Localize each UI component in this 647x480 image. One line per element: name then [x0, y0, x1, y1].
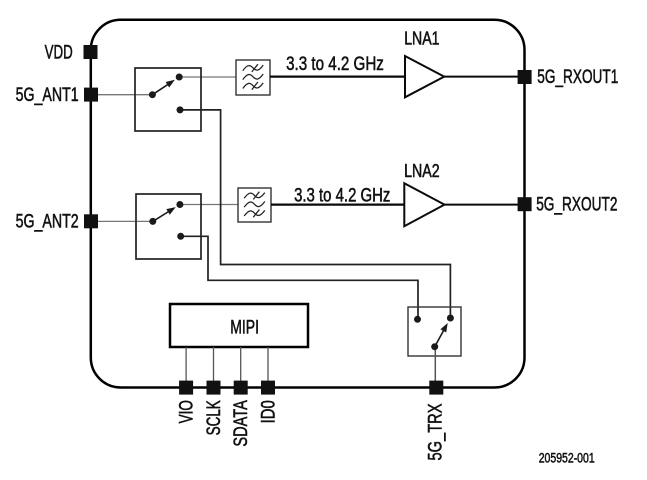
switch SW1 throw2 dot — [177, 106, 184, 113]
pin SCLK pad — [207, 381, 221, 395]
switch SW2 box — [136, 194, 201, 259]
switch SW3 throw1 dot — [414, 316, 421, 323]
switch SW3 arrow — [435, 323, 448, 347]
svg-text:SDATA: SDATA — [231, 400, 252, 447]
filter FL2 box — [238, 188, 271, 222]
wire SW1 throw1 to filter FL1 — [179, 76, 236, 78]
filter FL1 wave1 slash — [252, 64, 258, 72]
op-amp LNA1 triangle — [405, 56, 444, 97]
pin SDATA pad — [234, 381, 248, 395]
filter FL1 wave3 slash — [252, 82, 258, 90]
MIPI block box — [170, 304, 308, 347]
switch SW3 throw2 dot — [447, 315, 454, 322]
svg-text:ID0: ID0 — [258, 400, 279, 423]
wire 5G_ANT2 pin to switch SW2 common — [97, 220, 153, 222]
pin VIO pad — [179, 381, 193, 395]
filter FL2 wave1 — [244, 193, 265, 199]
filter FL1 box — [236, 60, 270, 95]
pin 5G_ANT2 pad — [84, 214, 98, 228]
wire 5G_ANT1 pin to switch SW1 common — [97, 94, 152, 96]
svg-text:LNA2: LNA2 — [404, 161, 440, 181]
svg-text:5G_TRX: 5G_TRX — [425, 403, 446, 460]
svg-text:MIPI: MIPI — [230, 317, 259, 338]
filter FL1 wave3 — [243, 83, 263, 89]
switch SW2 common dot — [149, 218, 156, 225]
wire MIPI to VIO pin — [185, 347, 187, 382]
wire LNA1 output to 5G_RXOUT1 pin — [444, 76, 518, 78]
svg-text:5G_ANT1: 5G_ANT1 — [16, 85, 79, 106]
switch SW1 common dot — [149, 91, 156, 98]
wire SW1 throw2 route to SW3 throw2 — [180, 110, 450, 318]
svg-text:SCLK: SCLK — [204, 400, 225, 435]
svg-text:VDD: VDD — [45, 43, 73, 64]
wire MIPI to SCLK pin — [213, 347, 215, 382]
svg-text:3.3 to 4.2 GHz: 3.3 to 4.2 GHz — [286, 54, 384, 75]
wire MIPI to SDATA pin — [240, 347, 242, 382]
wire SW2 throw1 to filter FL2 — [180, 204, 238, 206]
switch SW3 box — [408, 307, 461, 356]
filter FL2 wave2 — [244, 202, 265, 208]
switch SW2 arrow — [153, 207, 176, 221]
pin 5G_ANT1 pad — [84, 88, 98, 102]
switch SW1 arrow — [152, 80, 175, 95]
svg-text:5G_RXOUT2: 5G_RXOUT2 — [536, 194, 617, 215]
switch SW2 throw1 dot — [176, 201, 183, 208]
wire SW2 throw2 route to SW3 throw1 — [181, 236, 418, 319]
pin 5G_RXOUT1 pad — [518, 70, 532, 84]
op-amp LNA2 triangle — [404, 183, 444, 226]
svg-text:205952-001: 205952-001 — [539, 450, 595, 466]
svg-text:3.3 to 4.2 GHz: 3.3 to 4.2 GHz — [294, 185, 390, 206]
svg-text:VIO: VIO — [176, 400, 197, 423]
filter FL1 wave2 — [243, 74, 263, 80]
filter FL2 wave3 slash — [253, 210, 259, 218]
filter FL1 wave1 — [243, 65, 263, 71]
switch SW2 throw2 dot — [177, 233, 184, 240]
filter FL2 wave3 — [244, 210, 265, 216]
pin VDD pad — [84, 45, 98, 59]
IC package outline — [91, 20, 525, 388]
switch SW1 throw1 dot — [176, 74, 183, 81]
wire MIPI to ID0 pin — [267, 347, 269, 382]
wire filter FL1 to LNA1 input — [270, 75, 405, 77]
svg-text:5G_ANT2: 5G_ANT2 — [16, 212, 79, 233]
wire LNA2 output to 5G_RXOUT2 pin — [445, 204, 519, 206]
svg-text:5G_RXOUT1: 5G_RXOUT1 — [537, 67, 618, 88]
pin 5G_TRX pad — [429, 381, 443, 395]
wire filter FL2 to LNA2 input — [271, 203, 404, 205]
pin ID0 pad — [261, 381, 275, 395]
switch SW1 box — [135, 68, 201, 131]
svg-text:LNA1: LNA1 — [404, 29, 439, 49]
filter FL2 wave1 slash — [253, 192, 259, 200]
pin 5G_RXOUT2 pad — [518, 197, 532, 211]
switch SW3 common dot — [431, 343, 438, 350]
wire SW3 common to 5G_TRX pin — [434, 347, 436, 382]
